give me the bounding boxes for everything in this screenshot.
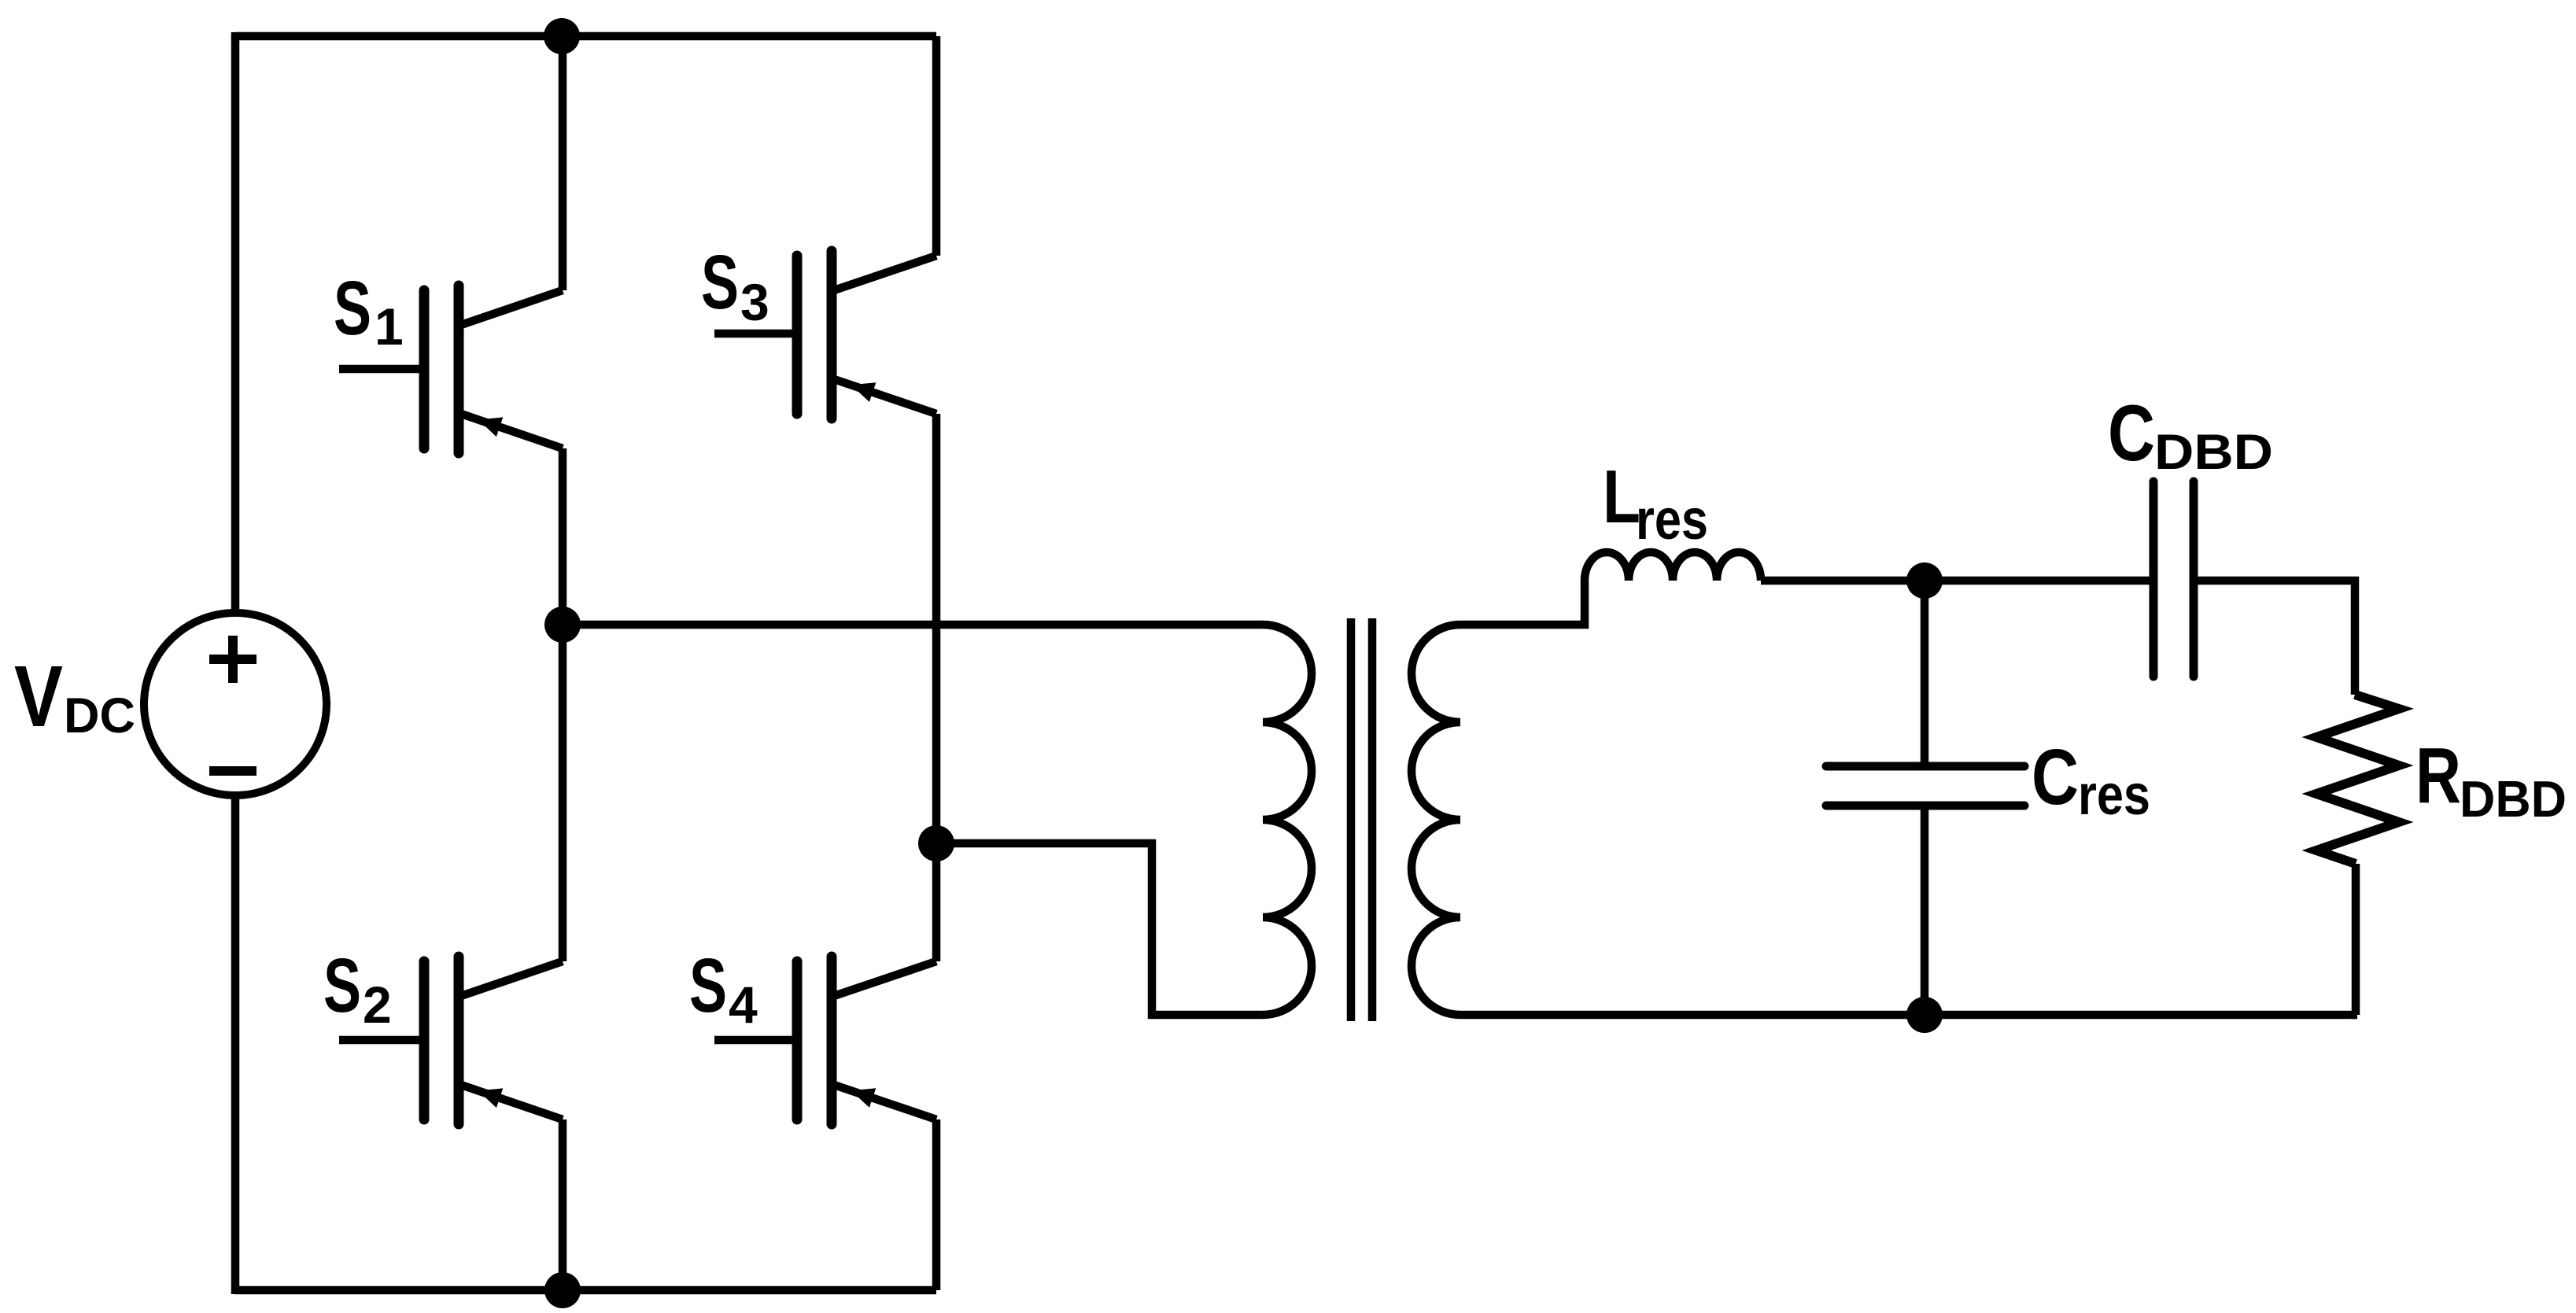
wire leg2 node B to S4 collector: [932, 843, 941, 961]
wire leg1 node A to S2 collector: [559, 625, 567, 961]
transistor S3 body bar: [827, 251, 837, 419]
wire top bus: [235, 32, 936, 41]
wire leg1 S2 emitter to bottom bus: [559, 1119, 567, 1290]
svg-text:R: R: [2415, 732, 2461, 820]
transistor S2 emitter arrow: [478, 1088, 504, 1108]
node C junction dot: [1906, 562, 1943, 599]
node B junction dot: [918, 825, 954, 861]
capacitor CDBD right plate: [2190, 481, 2198, 677]
transistor S2 body bar: [454, 957, 464, 1124]
transistor S1 gate bar: [419, 290, 430, 448]
wire node A to primary top: [563, 621, 1264, 629]
svg-text:C: C: [2108, 389, 2155, 478]
svg-text:DBD: DBD: [2154, 425, 2273, 480]
svg-text:2: 2: [363, 976, 392, 1034]
voltage source VDC: [144, 613, 327, 795]
resistor RDBD: [2316, 695, 2399, 864]
wire leg2 S4 emitter to bottom bus: [932, 1119, 941, 1290]
transistor S2 emitter lead: [459, 1084, 563, 1119]
svg-text:res: res: [1636, 489, 1708, 551]
transistor S4 collector lead: [832, 961, 936, 997]
node D junction dot: [1906, 997, 1943, 1033]
transistor S4 emitter arrow: [851, 1088, 877, 1108]
VDC plus sign: [209, 636, 256, 683]
inductor Lres: [1585, 552, 1761, 581]
transistor S1 collector lead: [459, 290, 563, 326]
svg-text:DBD: DBD: [2460, 770, 2567, 828]
transistor S1 emitter arrow: [478, 417, 504, 437]
svg-text:V: V: [14, 648, 63, 745]
transistor S4 gate lead: [714, 1036, 797, 1045]
wire Lres to node C: [1761, 577, 2153, 585]
svg-text:S: S: [701, 239, 739, 325]
capacitor CDBD left plate: [2150, 481, 2158, 677]
svg-text:S: S: [689, 942, 727, 1028]
wire left rail lower: [231, 795, 240, 1294]
transistor S4 emitter lead: [832, 1084, 936, 1119]
VDC minus sign: [209, 766, 256, 776]
wire left rail upper: [231, 32, 240, 614]
transformer primary winding: [1263, 625, 1312, 1015]
svg-text:res: res: [2078, 764, 2150, 827]
wire leg1 collector S1: [559, 36, 567, 290]
transistor S2 gate lead: [339, 1036, 424, 1045]
wire node C to Cres top: [1921, 581, 1929, 766]
transistor S3 gate lead: [714, 330, 797, 338]
transistor S2 gate bar: [419, 961, 430, 1119]
capacitor Cres top plate: [1826, 762, 2024, 771]
wire leg2 S3 emitter to node B: [932, 414, 941, 843]
svg-text:C: C: [2032, 733, 2079, 821]
svg-text:L: L: [1603, 455, 1640, 539]
wire bottom bus: [235, 1286, 936, 1295]
node A junction dot: [544, 607, 581, 643]
transformer secondary winding: [1412, 625, 1460, 1015]
transistor S1 body bar: [454, 286, 464, 453]
svg-text:S: S: [323, 942, 361, 1028]
transistor S4 gate bar: [792, 961, 803, 1119]
node bottom junction dot: [544, 1272, 581, 1308]
transistor S2 collector lead: [459, 961, 563, 997]
svg-text:S: S: [334, 265, 371, 351]
capacitor Cres bottom plate: [1826, 802, 2024, 810]
transistor S3 gate bar: [792, 256, 803, 414]
transistor S3 collector lead: [832, 256, 936, 291]
wire leg2 collector S3: [932, 36, 941, 256]
node top junction dot: [544, 18, 580, 54]
transformer core: [1347, 618, 1356, 1021]
transistor S4 body bar: [827, 957, 837, 1124]
wire CDBD to RDBD top: [2194, 581, 2355, 695]
svg-text:1: 1: [375, 297, 404, 356]
svg-text:3: 3: [740, 273, 769, 331]
wire leg1 S1 emitter to node A: [559, 448, 567, 625]
svg-text:4: 4: [729, 976, 758, 1034]
svg-text:DC: DC: [64, 688, 135, 743]
wire secondary top lead: [1460, 581, 1585, 625]
wire Cres bottom: [1921, 806, 1929, 1015]
transistor S3 emitter arrow: [851, 382, 877, 402]
transistor S1 gate lead: [339, 365, 424, 374]
transistor S1 emitter lead: [459, 413, 563, 448]
wire secondary bottom rail: [1460, 1011, 2357, 1020]
wire node B to primary bottom: [936, 843, 1264, 1015]
wire RDBD bottom: [2356, 864, 2357, 1015]
transistor S3 emitter lead: [832, 378, 936, 414]
